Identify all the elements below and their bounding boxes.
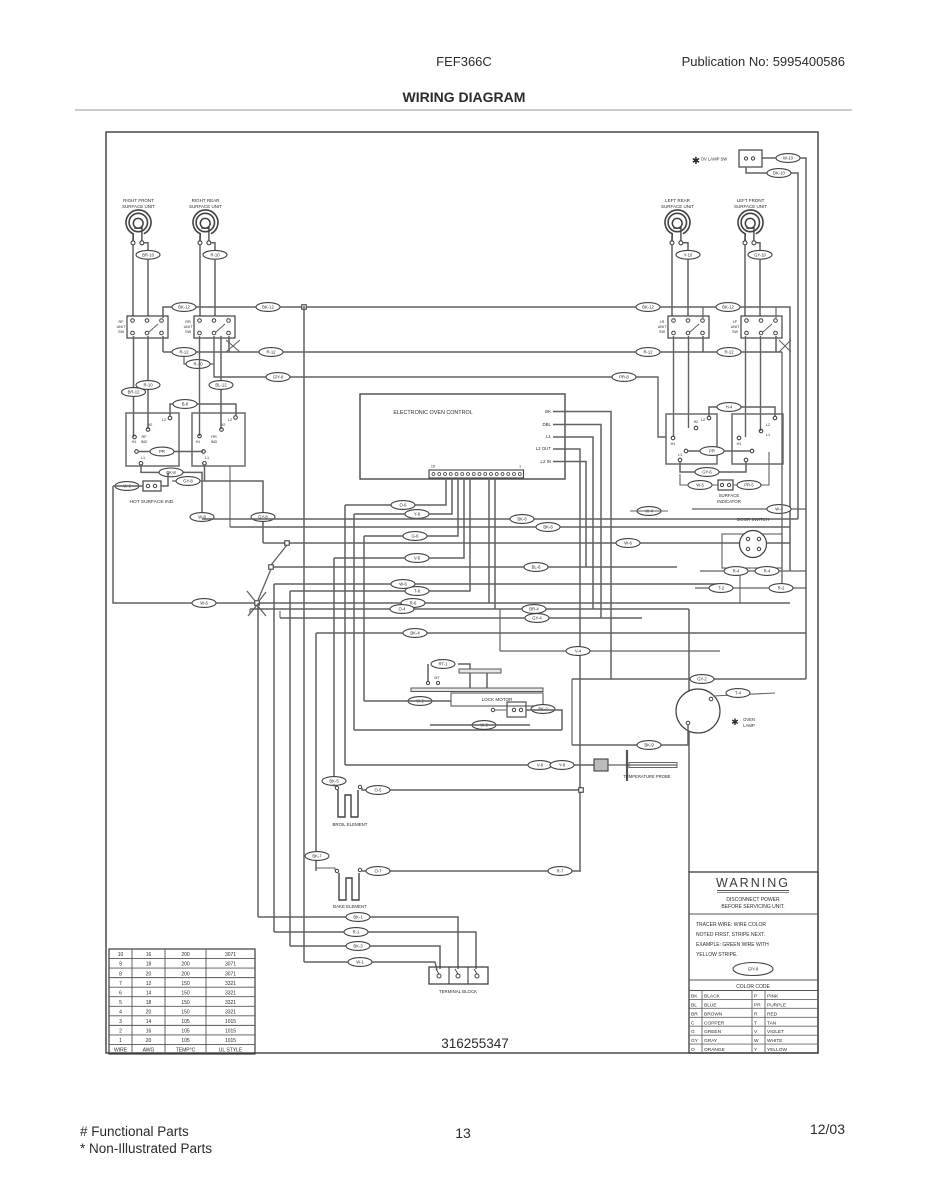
svg-text:VIOLET: VIOLET — [767, 1029, 784, 1035]
eoc pin strip — [429, 470, 524, 478]
svg-text:WHITE: WHITE — [767, 1038, 782, 1044]
svg-text:PR: PR — [159, 449, 165, 454]
wire RF sw to H2A — [147, 336, 149, 429]
svg-text:GY-2: GY-2 — [697, 677, 707, 682]
run y946 — [290, 946, 440, 969]
svg-text:PR: PR — [754, 1002, 761, 1008]
indicator box B terminals — [196, 416, 238, 465]
svg-text:COPPER: COPPER — [704, 1020, 725, 1026]
svg-text:BR-4: BR-4 — [529, 607, 539, 612]
svg-text:200: 200 — [181, 971, 190, 977]
temp probe shaft — [629, 763, 677, 768]
connector W-8 v — [190, 513, 214, 522]
wire right v782 — [781, 352, 783, 588]
svg-text:DOOR SWITCH: DOOR SWITCH — [737, 517, 769, 522]
warning divider2 — [689, 979, 818, 981]
connector R-12 b — [259, 348, 283, 357]
wire L1C loop — [680, 462, 746, 472]
connector BK-12 d — [716, 303, 740, 312]
svg-text:IND: IND — [141, 440, 148, 444]
svg-text:Publication No: 5995400586: Publication No: 5995400586 — [682, 54, 845, 69]
lock motor top bar — [411, 688, 543, 692]
svg-text:H2: H2 — [694, 420, 699, 424]
junction node S2 — [285, 541, 290, 546]
temp probe plug — [594, 759, 608, 771]
connector BK-6 b — [536, 523, 560, 532]
svg-text:PURPLE: PURPLE — [767, 1002, 786, 1008]
svg-text:R-4: R-4 — [764, 569, 771, 574]
junction node fan — [255, 601, 260, 606]
eoc wire DBL — [553, 425, 601, 619]
eoc wire L2 IN — [553, 462, 586, 568]
terminal block body — [429, 967, 488, 984]
svg-text:LAMP: LAMP — [743, 723, 755, 728]
right front surface unit coil — [122, 198, 155, 245]
connector R-12 d — [717, 348, 741, 357]
svg-text:15: 15 — [431, 465, 435, 469]
fan diag c — [248, 605, 257, 616]
wire RR unit right lead — [211, 243, 215, 250]
svg-text:W-5: W-5 — [696, 483, 704, 488]
connector BK-8 — [159, 468, 183, 477]
oven lamp switch box — [739, 150, 762, 167]
broil right terminal — [358, 785, 361, 788]
stub LF sw top to bus — [775, 307, 777, 318]
connector BK-2 — [531, 705, 555, 714]
eoc wire L1 — [553, 437, 593, 609]
svg-text:INDICATOR: INDICATOR — [717, 499, 741, 504]
svg-text:H1: H1 — [671, 442, 676, 446]
svg-text:BK-12: BK-12 — [262, 305, 274, 310]
lamp sw wire upper — [762, 158, 806, 679]
connector BR-12 — [122, 388, 146, 397]
svg-text:G: G — [691, 1029, 695, 1035]
svg-text:L1: L1 — [205, 456, 209, 460]
svg-text:LEFT FRONT: LEFT FRONT — [737, 198, 765, 203]
svg-text:Y-6: Y-6 — [414, 512, 421, 517]
indicator box B — [192, 413, 245, 466]
svg-text:UNIT: UNIT — [731, 325, 741, 329]
connector R-12 a — [172, 348, 196, 357]
pin wire 3 — [364, 478, 458, 536]
svg-text:B-8: B-8 — [182, 402, 189, 407]
connector W-5 — [688, 481, 712, 490]
connector R-10 e — [136, 381, 160, 390]
svg-text:TAN: TAN — [767, 1020, 777, 1026]
surface ind plug body — [718, 480, 733, 490]
svg-text:LR: LR — [660, 320, 665, 324]
svg-text:BROIL ELEMENT: BROIL ELEMENT — [333, 822, 368, 827]
wire left column — [113, 486, 257, 603]
svg-text:SURFACE: SURFACE — [719, 493, 740, 498]
run y633 drop — [315, 633, 317, 871]
svg-text:16: 16 — [146, 952, 152, 958]
connector PR-8 — [612, 373, 636, 382]
svg-text:SURFACE UNIT: SURFACE UNIT — [734, 204, 767, 209]
wire RF unit right lead b — [147, 259, 149, 316]
pin wire 5 drop — [289, 591, 291, 946]
svg-text:UNIT: UNIT — [184, 325, 194, 329]
svg-text:1: 1 — [519, 465, 521, 469]
svg-text:4: 4 — [119, 1009, 122, 1015]
connector BK-7 v — [305, 852, 329, 861]
pin wire 5 — [290, 478, 470, 591]
broil left jog — [334, 784, 337, 787]
connector BL-6 — [524, 563, 548, 572]
lock sw right wire — [526, 710, 562, 730]
svg-text:L2 OUT: L2 OUT — [536, 446, 552, 451]
surface ind plug right wire — [733, 452, 769, 485]
run y519 — [202, 518, 798, 520]
wire LF sw to D — [745, 336, 747, 437]
connector T-6 — [405, 587, 429, 596]
svg-text:BROWN: BROWN — [704, 1011, 723, 1017]
svg-text:BEFORE SERVICING UNIT.: BEFORE SERVICING UNIT. — [721, 904, 784, 910]
stub RF sw to bus — [162, 336, 164, 352]
svg-text:L2 IN: L2 IN — [541, 459, 552, 464]
connector W-4 c — [637, 507, 661, 516]
svg-text:GY-6: GY-6 — [702, 470, 712, 475]
lock motor cam stems — [470, 673, 487, 688]
svg-text:L1: L1 — [678, 453, 682, 457]
svg-text:T-4: T-4 — [735, 691, 742, 696]
bake left wire — [316, 866, 335, 870]
run y588 — [695, 587, 806, 589]
stub LF sw to bus — [775, 336, 777, 352]
svg-text:W-6: W-6 — [624, 541, 632, 546]
svg-text:105: 105 — [181, 1038, 190, 1044]
eoc pin circles — [432, 473, 521, 476]
pin wire 4 — [334, 478, 464, 558]
svg-text:R-2: R-2 — [778, 586, 785, 591]
fan drop — [257, 603, 259, 917]
svg-text:18: 18 — [146, 962, 152, 968]
svg-text:DBL: DBL — [542, 422, 551, 427]
wire L2A to L2B — [170, 404, 236, 416]
svg-text:H-4: H-4 — [726, 405, 733, 410]
label surface indicator — [717, 493, 741, 504]
connector BK-10 — [767, 169, 791, 178]
wire LR unit right lead b — [687, 259, 689, 316]
run y571 — [700, 570, 806, 572]
svg-text:R-4: R-4 — [733, 569, 740, 574]
svg-text:R-1: R-1 — [353, 930, 360, 935]
svg-text:H2: H2 — [221, 423, 226, 427]
svg-text:SURFACE UNIT: SURFACE UNIT — [189, 204, 222, 209]
connector GY-4 — [525, 614, 549, 623]
svg-text:RF: RF — [118, 320, 124, 324]
temp probe flange — [626, 750, 628, 781]
junction node J1 — [302, 305, 307, 310]
svg-text:W-6: W-6 — [200, 601, 208, 606]
run y917 — [258, 917, 458, 969]
svg-text:L2: L2 — [162, 418, 166, 422]
run y651 — [499, 609, 501, 651]
connector BK-4 — [403, 629, 427, 638]
svg-text:T-2: T-2 — [718, 586, 725, 591]
run y932 — [274, 932, 476, 969]
wire RR unit left lead — [199, 245, 201, 316]
wire L1B drop — [205, 465, 264, 543]
svg-text:150: 150 — [181, 981, 190, 987]
svg-text:150: 150 — [181, 1009, 190, 1015]
indicator box D — [732, 414, 783, 464]
stub LR sw to bus — [702, 336, 704, 352]
connector GY-8 v — [251, 513, 275, 522]
connector W-3 — [472, 721, 496, 730]
switch LF unit sw — [731, 316, 782, 338]
connector W-1 — [348, 958, 372, 967]
svg-text:# Functional Parts: # Functional Parts — [80, 1124, 189, 1139]
crossover RR top — [226, 340, 240, 352]
pin wire 7 — [494, 478, 496, 609]
svg-text:3071: 3071 — [225, 971, 236, 977]
pin wire 1 — [345, 478, 446, 505]
wire LR unit right lead — [683, 243, 688, 250]
connector R-6 — [401, 599, 425, 608]
svg-text:BL-6: BL-6 — [532, 565, 542, 570]
svg-text:BLUE: BLUE — [704, 1002, 717, 1008]
lamp left vertical — [571, 679, 573, 745]
svg-text:V-4: V-4 — [575, 649, 582, 654]
pin wire 6 — [488, 478, 490, 603]
svg-text:H1: H1 — [132, 440, 137, 444]
connector G/Y-8 — [266, 373, 290, 382]
svg-text:18: 18 — [146, 1000, 152, 1006]
left front surface unit coil — [734, 198, 767, 245]
wire LR sw to C — [673, 336, 675, 437]
broil left terminal — [335, 786, 338, 789]
connector T-2 — [709, 584, 733, 593]
svg-text:13: 13 — [455, 1125, 471, 1141]
svg-text:BR-12: BR-12 — [128, 390, 141, 395]
svg-text:YELLOW STRIPE.: YELLOW STRIPE. — [696, 952, 738, 958]
stub RR sw to bus — [228, 336, 230, 352]
connector V-6 — [405, 554, 429, 563]
junction node broil-bake — [579, 788, 584, 793]
terminal block contacts — [436, 969, 479, 978]
wire L2C to L2D — [709, 407, 775, 416]
connector GY-2 — [690, 675, 714, 684]
connector Y-10 — [676, 250, 700, 259]
run y567 — [271, 566, 677, 568]
door switch drop — [739, 568, 741, 603]
tracer text — [696, 922, 769, 958]
svg-text:GY-8: GY-8 — [183, 479, 193, 484]
svg-text:UNIT: UNIT — [658, 325, 668, 329]
svg-text:3: 3 — [119, 1019, 122, 1025]
svg-text:COLOR CODE: COLOR CODE — [736, 984, 770, 990]
svg-text:HOT SURFACE IND.: HOT SURFACE IND. — [130, 499, 175, 505]
svg-text:14: 14 — [146, 990, 152, 996]
svg-text:L2: L2 — [701, 418, 705, 422]
warning underline — [717, 891, 789, 893]
svg-text:200: 200 — [181, 962, 190, 968]
svg-text:1015: 1015 — [225, 1038, 236, 1044]
svg-text:SW: SW — [659, 330, 666, 334]
svg-text:L2: L2 — [228, 418, 232, 422]
junction node S3 — [269, 565, 274, 570]
run y679 — [572, 678, 806, 680]
connector BL-12 — [209, 381, 233, 390]
switch LR unit sw — [658, 316, 709, 338]
svg-text:LF: LF — [733, 320, 738, 324]
svg-text:16: 16 — [146, 1029, 152, 1035]
connector BK-12 a — [172, 303, 196, 312]
svg-text:O: O — [691, 1047, 695, 1053]
stub LR sw top to bus — [702, 307, 704, 318]
svg-text:6: 6 — [119, 990, 122, 996]
temp probe run — [345, 764, 594, 766]
svg-text:Y-10: Y-10 — [684, 252, 693, 257]
connector W-2 — [408, 697, 432, 706]
connector BK-9 — [637, 741, 661, 750]
svg-text:L1: L1 — [141, 456, 145, 460]
wire rr aux jog — [184, 357, 214, 364]
svg-text:T: T — [754, 1020, 757, 1026]
wire LF unit right lead — [756, 243, 760, 250]
svg-text:O-6: O-6 — [400, 503, 408, 508]
door switch body — [740, 531, 767, 558]
svg-text:BK-3: BK-3 — [353, 944, 363, 949]
oven lamp top wire — [713, 693, 775, 696]
connector BK-5 — [322, 777, 346, 786]
svg-text:BK-7: BK-7 — [312, 854, 322, 859]
lock under wire — [430, 724, 530, 726]
svg-text:R-12: R-12 — [643, 350, 653, 355]
svg-text:SW: SW — [185, 330, 192, 334]
crossover RR bot — [226, 340, 240, 352]
bus wire pr lower — [214, 336, 666, 437]
svg-text:BR-10: BR-10 — [142, 252, 155, 257]
svg-text:TRACER WIRE: WIRE COLOR: TRACER WIRE: WIRE COLOR — [696, 922, 766, 928]
bake right terminal — [358, 868, 361, 871]
svg-text:GRAY: GRAY — [704, 1038, 718, 1044]
svg-text:SW: SW — [118, 330, 125, 334]
svg-text:12/03: 12/03 — [810, 1121, 845, 1137]
connector W-4 b — [767, 505, 791, 514]
connector GY-6 — [695, 468, 719, 477]
wire LR unit left lead — [671, 245, 673, 316]
switch RF unit sw — [117, 316, 168, 338]
lock motor feed wire — [458, 664, 470, 669]
left rear surface unit coil — [661, 198, 694, 245]
svg-text:✱: ✱ — [731, 717, 739, 727]
wire RF unit right lead — [144, 243, 148, 250]
svg-text:H1: H1 — [196, 440, 201, 444]
label oven lamp — [731, 717, 755, 728]
connector O-5 — [366, 786, 390, 795]
fan diag e — [247, 591, 255, 601]
connector BK-3 — [346, 942, 370, 951]
run y603 junction — [257, 602, 790, 604]
svg-text:20: 20 — [146, 971, 152, 977]
svg-text:LEFT REAR: LEFT REAR — [665, 198, 690, 203]
run y618 left drop — [279, 611, 281, 618]
svg-text:1: 1 — [119, 1038, 122, 1044]
indicator box A terminals — [132, 416, 172, 465]
svg-text:RR: RR — [211, 435, 217, 439]
wire RF unit left lead — [132, 245, 134, 316]
wire y609 drop — [688, 609, 690, 872]
connector O-4 — [390, 605, 414, 614]
svg-text:YELLOW: YELLOW — [767, 1047, 787, 1053]
bake element coil — [339, 873, 359, 900]
svg-text:V-8: V-8 — [537, 763, 544, 768]
connector Y-8 — [550, 761, 574, 770]
connector B-8 — [173, 400, 197, 409]
svg-text:GY-10: GY-10 — [754, 252, 766, 257]
svg-text:RR: RR — [185, 320, 191, 324]
svg-text:W-6: W-6 — [399, 582, 407, 587]
connector T-4 — [726, 689, 750, 698]
wire LF unit left lead — [744, 245, 746, 316]
svg-text:BK-10: BK-10 — [773, 171, 785, 176]
run y527 h — [230, 526, 790, 528]
svg-text:200: 200 — [181, 952, 190, 958]
svg-text:L1: L1 — [766, 433, 770, 437]
svg-text:20: 20 — [146, 1009, 152, 1015]
svg-text:GREEN: GREEN — [704, 1029, 722, 1035]
hot surface plug body — [143, 481, 161, 491]
svg-text:IND: IND — [211, 440, 218, 444]
svg-text:12: 12 — [146, 981, 152, 987]
fan diagonal b — [258, 569, 271, 600]
svg-text:BK: BK — [691, 993, 698, 999]
bake left terminal — [335, 869, 338, 872]
svg-text:105: 105 — [181, 1029, 190, 1035]
lock motor switch box — [491, 702, 526, 717]
wire gauge table — [109, 949, 255, 1054]
indicator box A — [126, 413, 179, 466]
connector GY-10 — [748, 250, 772, 259]
bus wire L2 mid — [163, 351, 782, 353]
svg-text:RF: RF — [141, 435, 147, 439]
svg-text:H2: H2 — [148, 423, 153, 427]
svg-text:G/Y-8: G/Y-8 — [748, 967, 759, 972]
svg-text:R: R — [754, 1011, 758, 1017]
wire w4c stub — [630, 510, 668, 512]
bake right wire — [362, 870, 581, 872]
warning divider1 — [689, 913, 818, 915]
connector R-4 a — [724, 567, 748, 576]
connector V-8 — [528, 761, 552, 770]
color code table — [689, 991, 818, 1054]
svg-text:W-10: W-10 — [783, 156, 794, 161]
run y609 left — [249, 609, 251, 614]
svg-text:TERMINAL BLOCK: TERMINAL BLOCK — [439, 989, 477, 994]
svg-text:BL: BL — [691, 1002, 697, 1008]
wire LF unit right lead b — [759, 259, 761, 316]
svg-text:ORANGE: ORANGE — [704, 1047, 725, 1053]
svg-text:GY: GY — [691, 1038, 699, 1044]
wire wiper C to D — [688, 450, 750, 452]
svg-text:LOCK MOTOR: LOCK MOTOR — [482, 697, 513, 702]
hot surface plug oval — [115, 482, 139, 491]
svg-text:V-6: V-6 — [414, 556, 421, 561]
pin wire 2 — [354, 478, 452, 514]
svg-text:H1: H1 — [737, 442, 742, 446]
lock motor cam bar — [459, 669, 501, 673]
wire J1 drop — [303, 306, 305, 962]
run y962 — [304, 962, 437, 970]
title underline rule — [75, 109, 852, 111]
fan diagonal a — [271, 545, 287, 565]
svg-text:PR-5: PR-5 — [744, 483, 754, 488]
pin wire 2 drop — [353, 514, 355, 730]
run y509 — [692, 508, 806, 510]
svg-text:R-12: R-12 — [266, 350, 276, 355]
